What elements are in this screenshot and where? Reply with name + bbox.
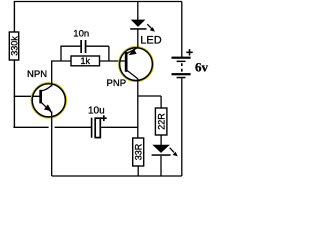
wire NPN collector vertical [51, 61, 53, 87]
svg-text:33R: 33R [133, 143, 143, 160]
wire 10n connector left [60, 46, 62, 61]
LED D1 [130, 2, 155, 32]
svg-text:PNP: PNP [107, 78, 127, 89]
wire top rail [14, 1, 182, 3]
wire feedback horizontal (left of crossing) [13, 126, 48, 128]
wire 22R to LED2 [160, 135, 162, 145]
wire 10n branch left [60, 45, 80, 47]
wire PNP collector down [137, 79, 139, 139]
wire 1k to PNP base [100, 60, 126, 62]
transistor Q2 PNP [119, 47, 153, 81]
resistor 22R [155, 108, 167, 135]
svg-text:NPN: NPN [27, 69, 47, 80]
svg-text:330k: 330k [10, 36, 20, 56]
wire PNP emitter to LED1 [137, 29, 139, 49]
LED D2 [152, 145, 178, 176]
wire 10n connector right [108, 46, 110, 61]
wire bottom rail [52, 175, 182, 177]
capacitor 10u plate positive [95, 118, 100, 137]
wire left rail upper [13, 2, 15, 33]
wire 10u to collector node [101, 126, 138, 128]
wire NPN emitter vertical [51, 112, 53, 177]
capacitor 10n plate left [80, 40, 82, 53]
wire collector node to 22R branch [138, 95, 161, 97]
capacitor 10u plus sign [101, 115, 107, 121]
resistor 1k [71, 56, 100, 66]
resistor 330k [9, 32, 18, 60]
svg-text:10n: 10n [73, 28, 89, 39]
transistor Q1 NPN [32, 83, 67, 118]
svg-text:1k: 1k [80, 56, 90, 66]
wire feedback horizontal (right of crossing) [55, 126, 91, 128]
wire 1k branch left [51, 60, 72, 62]
wire 10n branch right [86, 45, 109, 47]
wire 22R top [160, 96, 162, 108]
svg-text:6v: 6v [195, 60, 209, 75]
wire NPN base [14, 95, 40, 97]
battery B1 [172, 2, 193, 177]
svg-text:10u: 10u [88, 106, 105, 117]
wire left rail lower [13, 60, 15, 127]
resistor 33R [133, 138, 144, 166]
svg-text:22R: 22R [156, 113, 166, 130]
capacitor 10u plate negative [91, 118, 93, 138]
capacitor 10n plate right [85, 40, 87, 53]
svg-text:LED: LED [140, 34, 161, 46]
wire 33R to rail [137, 166, 139, 176]
